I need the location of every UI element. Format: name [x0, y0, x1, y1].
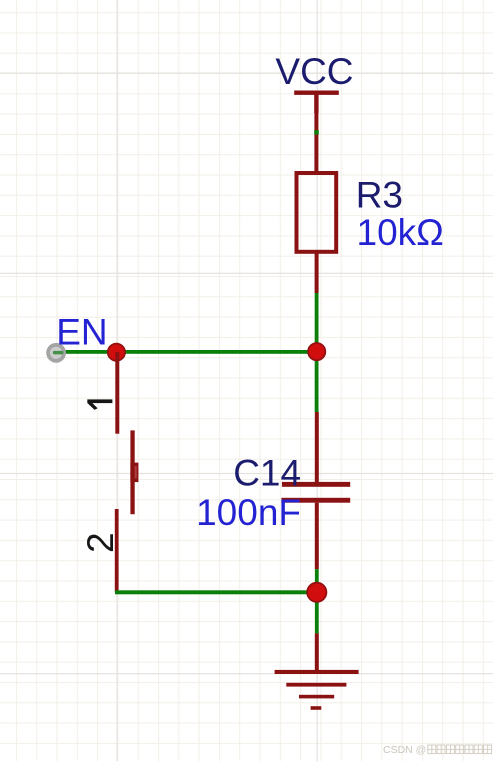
junction bottom (switch pin 2 / C14 / GND) — [307, 583, 326, 602]
wire to ground (dark red segment) — [315, 633, 319, 671]
wire EN horizontal (green) — [64, 350, 317, 354]
svg-text:100nF: 100nF — [196, 492, 301, 533]
switch pin 1 wire — [115, 352, 119, 434]
wire VCC to R3 — [314, 111, 318, 172]
node VCC pin dot (green) — [314, 130, 319, 134]
svg-text:C14: C14 — [233, 452, 301, 493]
capacitor C14 bottom plate — [281, 498, 350, 503]
wire to bottom junction (green segment) — [315, 569, 319, 633]
switch actuator bar — [130, 430, 134, 514]
wire R3 bottom (dark red segment) — [315, 252, 319, 293]
wire net EN vertical (green segment) — [315, 293, 319, 412]
svg-text:VCC: VCC — [275, 51, 353, 92]
wire C14 bottom (dark red segment) — [315, 503, 319, 569]
wire junction to C14 (dark red segment) — [315, 412, 319, 482]
capacitor C14 top plate — [282, 482, 350, 487]
switch pin 2 wire — [115, 509, 119, 592]
junction left (EN / switch pin 1) — [108, 344, 125, 361]
svg-text:2: 2 — [80, 532, 121, 553]
switch pin 1 number — [87, 399, 112, 410]
ground symbol bar 2 — [286, 683, 346, 687]
svg-text:10kΩ: 10kΩ — [357, 212, 444, 253]
svg-text:CSDN @: CSDN @ — [383, 744, 426, 756]
watermark — [383, 744, 492, 756]
power port VCC stem — [314, 92, 318, 113]
junction right (EN / R3 / C14) — [308, 343, 325, 360]
switch actuator nub — [130, 463, 138, 483]
wire bottom horizontal (green) — [115, 590, 317, 594]
node EN open end (gray dot) — [46, 343, 66, 363]
ground symbol bar 4 — [311, 706, 322, 710]
ground symbol bar 1 — [275, 670, 359, 674]
power port VCC bar — [294, 91, 339, 95]
resistor R3 body — [297, 173, 337, 252]
svg-text:EN: EN — [56, 312, 107, 353]
svg-text:R3: R3 — [356, 174, 403, 215]
ground symbol bar 3 — [299, 695, 334, 699]
